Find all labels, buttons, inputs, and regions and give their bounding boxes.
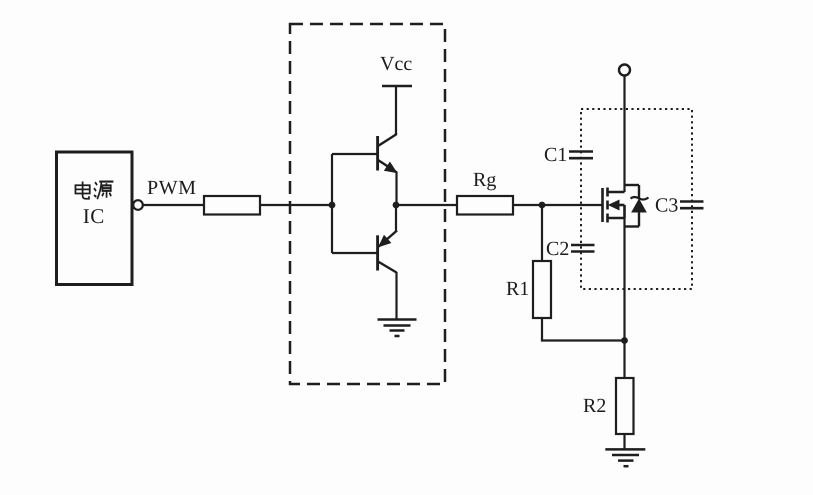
node driver output junction dot (393, 202, 400, 209)
wire PWM terminal to input resistor (143, 204, 204, 206)
wire R2 to ground (623, 434, 625, 449)
wire R1 bottom to source node (542, 318, 625, 341)
label PWM (148, 181, 196, 194)
resistor R1 (533, 261, 551, 318)
label C3 (656, 198, 678, 211)
wire Rg to gate (513, 204, 602, 206)
label R2 (584, 399, 606, 412)
diode D (body diode) (625, 185, 649, 227)
wire Q1 base (332, 153, 377, 155)
resistor R2 (616, 378, 634, 434)
node drain terminal circle (619, 65, 630, 76)
ground (driver stage) (378, 320, 417, 337)
ground (source network) (605, 449, 645, 466)
node PWM output terminal circle (133, 200, 143, 210)
transistor Q2 (PNP, lower) (378, 231, 397, 273)
wire drain terminal to MOSFET (623, 76, 625, 193)
transistor Q3 (N-channel MOSFET) (603, 188, 625, 223)
wire input resistor to driver bases (260, 204, 332, 206)
label 电源 (75, 181, 113, 199)
label Vcc (380, 57, 411, 70)
node gate junction dot (539, 202, 546, 209)
driver stage dashed box (290, 24, 445, 384)
wire Q2 base (332, 252, 377, 254)
label C1 (545, 148, 566, 161)
resistor (series input resistor, unlabeled) (204, 196, 260, 215)
wire driver output to Rg (396, 204, 457, 206)
wire MOSFET source down to R2 (623, 218, 625, 378)
wire Q2 collector to ground (395, 272, 397, 320)
resistor Rg (457, 196, 513, 215)
wire Q1 emitter to output node (395, 172, 397, 205)
node input junction dot (329, 202, 336, 209)
transistor Q1 (NPN, upper) (378, 133, 397, 173)
capacitor C3 (680, 202, 704, 209)
label R1 (507, 282, 529, 295)
capacitor C1 (569, 152, 593, 159)
capacitor C2 (571, 245, 595, 252)
MOSFET parasitic dotted box (581, 109, 692, 289)
wire base rail (331, 154, 333, 253)
power IC box U1 (电源 IC) (57, 152, 133, 285)
wire output node to Q2 emitter (395, 205, 397, 231)
node source junction dot (621, 337, 628, 344)
label IC (84, 209, 104, 223)
label Rg (474, 173, 496, 190)
power Vcc rail bar (382, 85, 412, 88)
label C2 (547, 242, 568, 255)
wire Vcc bar to Q1 collector (395, 86, 397, 134)
wire gate node down to R1 (541, 205, 543, 261)
